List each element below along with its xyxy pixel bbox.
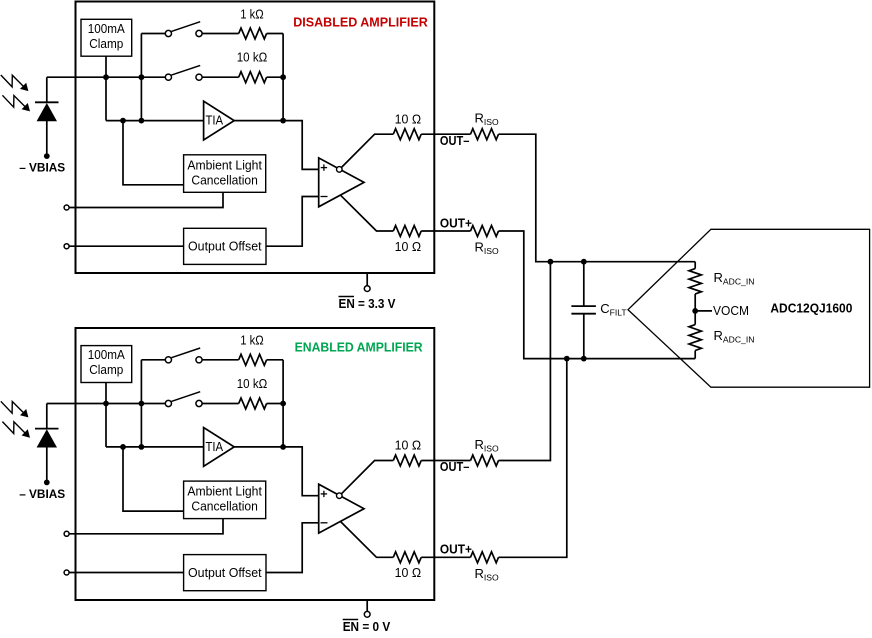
terminal ALC control input (block 1) <box>64 205 69 210</box>
wire feedback row1 left stub (block 2) <box>141 359 165 361</box>
wire photodiode D2 cathode up to input net <box>46 404 48 429</box>
svg-text:ENABLED AMPLIFIER: ENABLED AMPLIFIER <box>295 341 423 355</box>
junction VOCM node <box>692 308 698 314</box>
amplifier block 1 outer box <box>76 2 435 274</box>
svg-text:Cancellation: Cancellation <box>191 499 258 514</box>
wire photodiode D1 cathode up to input net <box>46 77 48 102</box>
resistor Riso bottom (block 2) <box>471 552 499 563</box>
svg-text:EN = 0 V: EN = 0 V <box>343 619 391 634</box>
output offset block U2c <box>184 555 266 591</box>
terminal output offset input (block 1) <box>64 244 69 249</box>
wire switch-row left vertical (block 1) <box>140 34 142 121</box>
wire ALC branch (block 2) <box>123 447 184 511</box>
100mA clamp block U1a <box>81 19 132 56</box>
wire OUT- from amp to resistors (block 1) <box>341 134 393 167</box>
junction top bus / Cfilt <box>581 259 587 265</box>
photodiode D2 cathode bar <box>35 428 59 430</box>
svg-text:TIA: TIA <box>206 113 224 128</box>
wire TIA output to main amp + input (block 2) <box>234 447 319 496</box>
wire feedback right vertical (block 1) <box>282 34 284 121</box>
resistor 10 Ohm bottom (block 2) <box>393 552 421 563</box>
terminal output offset input (block 2) <box>64 570 69 575</box>
wire output offset to main amp - input (block 1) <box>266 197 319 247</box>
minus input marker (block 1) <box>321 196 328 198</box>
wire switch S1b to resistor 10k (block 1) <box>202 76 239 78</box>
svg-text:1 kΩ: 1 kΩ <box>240 6 264 21</box>
svg-text:10 Ω: 10 Ω <box>395 239 422 254</box>
wire ALC control to terminal (block 2) <box>69 519 223 534</box>
wire output offset input (block 1) <box>69 245 184 247</box>
switch S2a right contact <box>196 357 202 363</box>
minus input marker (block 2) <box>321 522 328 524</box>
switch S2b lever <box>171 392 200 402</box>
light arrow 1 into photodiode D2 <box>1 401 23 413</box>
wire clamp output vertical (block 2) <box>105 383 107 447</box>
switch S1b lever <box>171 65 200 75</box>
svg-text:OUT+: OUT+ <box>440 215 472 230</box>
switch S1b right contact <box>196 74 202 80</box>
wire switch S2b to resistor 10k (block 2) <box>202 403 239 405</box>
svg-text:– VBIAS: – VBIAS <box>19 487 65 501</box>
switch S1a right contact <box>196 30 202 36</box>
resistor 1 kOhm (block 1) <box>239 28 267 39</box>
svg-text:VOCM: VOCM <box>713 303 749 318</box>
switch S1a lever <box>171 22 200 32</box>
junction TIA input / row vertical (block 1) <box>139 118 145 124</box>
svg-text:OUT+: OUT+ <box>440 542 472 557</box>
junction top bus / block2 OUT- riser <box>548 259 554 265</box>
terminal ALC control input (block 2) <box>64 531 69 536</box>
terminal dot -VBIAS (block 2) <box>44 480 50 486</box>
svg-text:10 kΩ: 10 kΩ <box>237 50 268 65</box>
svg-text:RISO: RISO <box>475 437 500 454</box>
plus input marker (block 1) <box>321 167 327 169</box>
svg-text:DISABLED AMPLIFIER: DISABLED AMPLIFIER <box>293 16 428 30</box>
wire Radc_in upper to VOCM node <box>694 294 696 311</box>
inverting output bubble (block 2) <box>337 493 343 499</box>
wire feedback right vertical (block 2) <box>282 360 284 447</box>
photodiode D1 cathode bar <box>35 101 59 103</box>
svg-text:RADC_IN: RADC_IN <box>714 270 755 287</box>
wire TIA input (block 1) <box>106 120 204 122</box>
wire output offset to main amp - input (block 2) <box>266 523 319 573</box>
wire ALC control to terminal (block 1) <box>69 192 223 207</box>
svg-text:EN = 3.3 V: EN = 3.3 V <box>339 296 396 311</box>
junction bottom bus / Cfilt <box>581 356 587 362</box>
wire switch S2a to resistor 1k (block 2) <box>202 359 239 361</box>
light arrow 2 into photodiode D2 <box>2 422 24 434</box>
resistor Radc_in lower <box>689 325 701 351</box>
wire 10 Ohm to Riso bottom (block 1) <box>421 230 470 232</box>
wire 10 Ohm to Riso top (block 2) <box>421 460 470 462</box>
switch S2b right contact <box>196 400 202 406</box>
wire clamp output vertical (block 1) <box>105 56 107 120</box>
wire top bus corner into Radc_in upper <box>694 262 696 269</box>
capacitor Cfilt top lead <box>583 262 585 306</box>
ADC12QJ1600 outline <box>628 229 870 387</box>
svg-text:Clamp: Clamp <box>89 36 123 51</box>
svg-text:Clamp: Clamp <box>89 362 123 377</box>
plus input marker (block 2) <box>321 493 327 495</box>
output offset block U1c <box>184 228 266 264</box>
switch S1a left contact <box>165 30 171 36</box>
svg-text:10 Ω: 10 Ω <box>395 111 422 126</box>
svg-text:Output Offset: Output Offset <box>188 239 262 254</box>
wire switch-row left vertical (block 2) <box>140 360 142 447</box>
100mA clamp block U2a <box>81 346 132 383</box>
svg-text:OUT–: OUT– <box>440 133 470 148</box>
amplifier block 2 outer box <box>76 328 435 600</box>
wire OUT+ from amp to resistors (block 2) <box>341 522 394 558</box>
wire Radc_in lower to bottom bus <box>694 351 696 359</box>
svg-text:CFILT: CFILT <box>600 301 627 318</box>
svg-text:100mA: 100mA <box>88 347 125 362</box>
resistor 10 kOhm (block 1) <box>239 72 267 83</box>
wire 10 Ohm to Riso top (block 1) <box>421 133 470 135</box>
resistor Radc_in upper <box>689 269 701 294</box>
svg-text:10 Ω: 10 Ω <box>395 565 422 580</box>
svg-text:TIA: TIA <box>206 439 224 454</box>
junction TIA input / row vertical (block 2) <box>139 444 145 450</box>
wire switch S1a to resistor 1k (block 1) <box>202 33 239 35</box>
wire resistor 1k to right vertical (block 2) <box>267 359 284 361</box>
wire input net horizontal (photodiode to switches, block 1) <box>47 76 166 78</box>
capacitor Cfilt bottom plate <box>571 313 596 315</box>
junction input net / row vertical (block 2) <box>139 401 145 407</box>
resistor 10 Ohm bottom (block 1) <box>393 226 421 237</box>
wire OUT- from amp to resistors (block 2) <box>341 461 393 494</box>
light arrow 1 into photodiode D1 <box>1 75 23 87</box>
wire block2 OUT- riser up to top bus <box>499 262 551 461</box>
junction TIA input / ALC branch (block 2) <box>120 444 126 450</box>
wire VOCM node into Radc_in lower <box>694 311 696 325</box>
capacitor Cfilt top plate <box>571 305 596 307</box>
fully differential amplifier A1b <box>319 158 364 207</box>
capacitor Cfilt bottom lead <box>583 314 585 359</box>
enable terminal (block 2) <box>364 611 370 617</box>
terminal dot -VBIAS (block 1) <box>44 153 50 159</box>
photodiode D2 body <box>37 429 57 447</box>
wire resistor 10k to right vertical (block 2) <box>267 403 284 405</box>
wire TIA input (block 2) <box>106 446 204 448</box>
junction feedback/TIA output (block 2) <box>280 444 286 450</box>
svg-text:10 kΩ: 10 kΩ <box>237 376 268 391</box>
resistor 10 Ohm top (block 1) <box>393 129 421 140</box>
resistor Riso bottom (block 1) <box>471 226 499 237</box>
wire photodiode D2 anode down to bias terminal <box>46 447 48 482</box>
svg-text:RISO: RISO <box>475 111 500 128</box>
junction clamp/input net (block 2) <box>103 401 109 407</box>
svg-text:1 kΩ: 1 kΩ <box>240 333 264 348</box>
resistor 1 kOhm (block 2) <box>239 354 267 365</box>
wire VOCM node stub <box>695 310 712 312</box>
wire 10 Ohm to Riso bottom (block 2) <box>421 556 470 558</box>
junction TIA input / ALC branch (block 1) <box>120 118 126 124</box>
svg-text:Output Offset: Output Offset <box>188 565 262 580</box>
switch S2a left contact <box>165 357 171 363</box>
resistor Riso top (block 2) <box>471 455 499 466</box>
wire resistor 1k to right vertical (block 1) <box>267 33 284 35</box>
inverting output bubble (block 1) <box>337 167 343 173</box>
fully differential amplifier A2b <box>319 484 364 533</box>
svg-text:RISO: RISO <box>475 240 500 257</box>
photodiode D1 body <box>37 103 57 121</box>
svg-text:10 Ω: 10 Ω <box>395 438 422 453</box>
resistor Riso top (block 1) <box>471 129 499 140</box>
svg-text:Cancellation: Cancellation <box>191 172 258 187</box>
resistor 10 kOhm (block 2) <box>239 398 267 409</box>
wire feedback row1 left stub (block 1) <box>141 33 165 35</box>
junction feedback/TIA output (block 1) <box>280 118 286 124</box>
TIA amplifier A2a <box>204 428 235 467</box>
svg-text:Ambient Light: Ambient Light <box>187 157 262 172</box>
switch S2a lever <box>171 348 200 358</box>
junction input net / row vertical (block 1) <box>139 74 145 80</box>
svg-text:ADC12QJ1600: ADC12QJ1600 <box>770 300 852 315</box>
wire photodiode D1 anode down to bias terminal <box>46 121 48 156</box>
junction bottom bus / block2 OUT+ riser <box>564 356 570 362</box>
TIA amplifier A1a <box>204 101 235 140</box>
wire output offset input (block 2) <box>69 572 184 574</box>
junction clamp/input net (block 1) <box>103 74 109 80</box>
junction feedback/row2 (block 2) <box>280 401 286 407</box>
enable stub wire (block 2) <box>366 600 368 611</box>
enable stub wire (block 1) <box>366 273 368 286</box>
overline for EN (block 1) <box>339 296 355 298</box>
switch S1b left contact <box>165 74 171 80</box>
svg-text:Ambient Light: Ambient Light <box>187 484 262 499</box>
svg-text:RADC_IN: RADC_IN <box>714 328 755 345</box>
junction feedback/row2 (block 1) <box>280 74 286 80</box>
ambient light cancellation block U2b <box>184 481 266 518</box>
light arrow 2 into photodiode D1 <box>2 95 24 107</box>
wire block2 OUT+ riser up to bottom bus <box>499 359 567 558</box>
resistor 10 Ohm top (block 2) <box>393 455 421 466</box>
svg-text:100mA: 100mA <box>88 21 125 36</box>
wire OUT+ net from block1 Riso down to bottom bus <box>499 231 696 359</box>
enable terminal (block 1) <box>364 286 370 292</box>
wire ALC branch (block 1) <box>123 121 184 185</box>
wire OUT- net from block1 Riso down to top bus <box>499 134 696 262</box>
wire input net horizontal (photodiode to switches, block 2) <box>47 403 166 405</box>
wire OUT+ from amp to resistors (block 1) <box>341 195 394 231</box>
svg-text:– VBIAS: – VBIAS <box>19 161 65 175</box>
svg-text:RISO: RISO <box>475 566 500 583</box>
switch S2b left contact <box>165 400 171 406</box>
ambient light cancellation block U1b <box>184 155 266 193</box>
overline for EN (block 2) <box>343 619 359 621</box>
wire resistor 10k to right vertical (block 1) <box>267 76 284 78</box>
wire TIA output to main amp + input (block 1) <box>234 121 319 170</box>
svg-text:OUT–: OUT– <box>440 459 470 474</box>
